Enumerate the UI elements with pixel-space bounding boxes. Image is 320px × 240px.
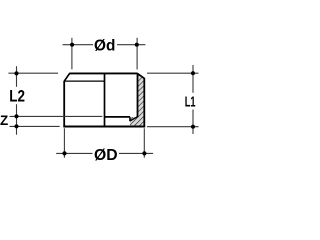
body top-right chamfer bbox=[137, 73, 144, 78]
svg-text:ØD: ØD bbox=[94, 147, 118, 164]
body top-left chamfer bbox=[64, 73, 70, 81]
dimension OD (bottom): dot terminators bbox=[62, 151, 66, 155]
dimension L1 (right): top extension line bbox=[147, 72, 199, 74]
dimension Od (top): extension line right bbox=[136, 38, 138, 70]
dimension L2/Z (left): vertical dimension line bbox=[16, 66, 18, 87]
dimension L2/Z (left): bottom extension line bbox=[10, 125, 60, 127]
svg-text:L2: L2 bbox=[9, 87, 25, 105]
svg-text:Ød: Ød bbox=[94, 37, 115, 54]
svg-text:L1: L1 bbox=[185, 94, 196, 110]
dimension L2/Z (left): middle extension line bbox=[10, 115, 103, 117]
body bottom edge bbox=[63, 126, 145, 128]
svg-text:Z: Z bbox=[0, 113, 8, 128]
socket bottom line bbox=[105, 116, 131, 118]
dimension Od (top): dot terminators bbox=[70, 43, 74, 47]
dimension L1 (right): dot terminators bbox=[191, 71, 195, 75]
hatched wall cross-section (right strip + bottom-right ring) bbox=[130, 73, 144, 126]
bore surface line bbox=[137, 73, 139, 117]
half-section boundary line bbox=[104, 74, 106, 127]
body right edge bbox=[143, 78, 145, 127]
internal chamfer edge in section bbox=[130, 117, 138, 121]
dimension L1 (right): vertical dimension line bbox=[192, 65, 194, 93]
dimension OD (bottom): dimension line bbox=[56, 152, 92, 154]
dimension Od (top): dimension line bbox=[63, 44, 94, 46]
body left edge bbox=[63, 81, 65, 127]
body top edge bbox=[69, 72, 137, 74]
dimension L1 (right): bottom extension line bbox=[147, 126, 199, 128]
dimension OD (bottom): extension line right bbox=[143, 128, 145, 157]
through-hole edge step bbox=[129, 117, 131, 121]
dimension OD (bottom): extension line left bbox=[63, 128, 65, 157]
chamfer base line bbox=[64, 80, 104, 82]
dimension Od (top): extension line left bbox=[71, 38, 73, 70]
dimension L2/Z (left): dot terminators bbox=[14, 71, 18, 75]
dimension L2/Z (left): top extension line bbox=[8, 72, 58, 74]
